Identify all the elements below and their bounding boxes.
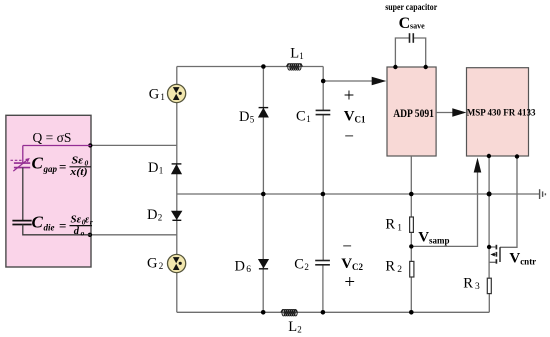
svg-text:MSP 430 FR 4133: MSP 430 FR 4133 (467, 107, 536, 117)
svg-text:−: − (342, 237, 352, 256)
svg-text:C1: C1 (355, 115, 366, 125)
svg-text:D: D (239, 109, 249, 125)
svg-text:+: + (344, 272, 355, 293)
svg-text:5: 5 (250, 114, 255, 124)
svg-text:d: d (74, 226, 80, 237)
svg-text:Sε: Sε (72, 155, 84, 166)
svg-text:6: 6 (246, 265, 251, 275)
svg-text:=: = (59, 159, 66, 174)
svg-text:1: 1 (306, 114, 311, 124)
svg-text:V: V (344, 109, 355, 125)
svg-text:R: R (385, 217, 395, 233)
svg-text:L: L (290, 45, 299, 61)
svg-text:1: 1 (397, 223, 402, 233)
svg-text:G: G (149, 86, 160, 102)
svg-text:C: C (32, 212, 44, 231)
svg-text:cntr: cntr (520, 257, 536, 267)
svg-text:2: 2 (297, 325, 302, 335)
svg-text:R: R (463, 275, 473, 291)
svg-text:samp: samp (429, 235, 450, 245)
svg-text:C: C (399, 15, 411, 32)
svg-text:C2: C2 (352, 262, 363, 272)
svg-text:+: + (344, 85, 355, 106)
svg-text:−: − (344, 127, 354, 146)
svg-text:G: G (147, 256, 158, 272)
svg-text:C: C (32, 153, 44, 172)
svg-text:2: 2 (397, 265, 402, 275)
svg-text:L: L (288, 319, 297, 335)
svg-text:Sε: Sε (71, 215, 82, 225)
svg-text:V: V (509, 251, 520, 267)
svg-text:gap: gap (43, 164, 58, 174)
svg-text:1: 1 (159, 166, 164, 176)
svg-text:2: 2 (158, 213, 163, 223)
svg-text:save: save (410, 21, 425, 30)
svg-text:2: 2 (304, 262, 309, 272)
svg-text:3: 3 (475, 282, 480, 292)
svg-text:D: D (148, 160, 158, 176)
svg-text:ADP 5091: ADP 5091 (393, 107, 434, 120)
svg-text:D: D (147, 207, 157, 223)
svg-text:super capacitor: super capacitor (385, 2, 437, 13)
svg-text:die: die (44, 222, 55, 232)
svg-text:x(t): x(t) (69, 167, 87, 178)
svg-text:C: C (296, 108, 306, 124)
svg-text:C: C (294, 256, 304, 272)
svg-text:V: V (341, 256, 352, 272)
svg-text:o: o (81, 229, 85, 238)
svg-text:1: 1 (299, 51, 304, 61)
svg-text:Q = σS: Q = σS (33, 130, 72, 145)
svg-text:R: R (385, 258, 395, 274)
svg-text:1: 1 (160, 92, 165, 102)
svg-text:2: 2 (159, 261, 164, 271)
svg-text:D: D (235, 258, 245, 274)
svg-text:V: V (418, 229, 429, 245)
svg-text:=: = (59, 218, 66, 233)
